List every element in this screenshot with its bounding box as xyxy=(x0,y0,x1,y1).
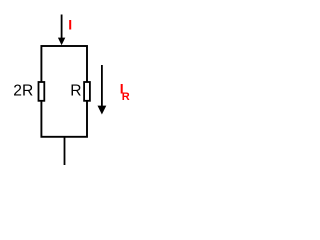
svg-text:I: I xyxy=(68,16,72,32)
svg-text:2R: 2R xyxy=(13,83,33,100)
wire loop (top / left / right / bottom) xyxy=(41,46,87,137)
current arrow I (top input) xyxy=(58,15,65,46)
resistor R (right branch) xyxy=(84,82,90,101)
wire stub (bottom lead) xyxy=(64,137,66,165)
svg-text:R: R xyxy=(122,91,130,103)
resistor 2R (left branch) xyxy=(39,82,45,101)
svg-text:R: R xyxy=(70,83,81,100)
label IR (red) xyxy=(120,80,130,103)
current arrow IR (through R) xyxy=(98,65,107,115)
